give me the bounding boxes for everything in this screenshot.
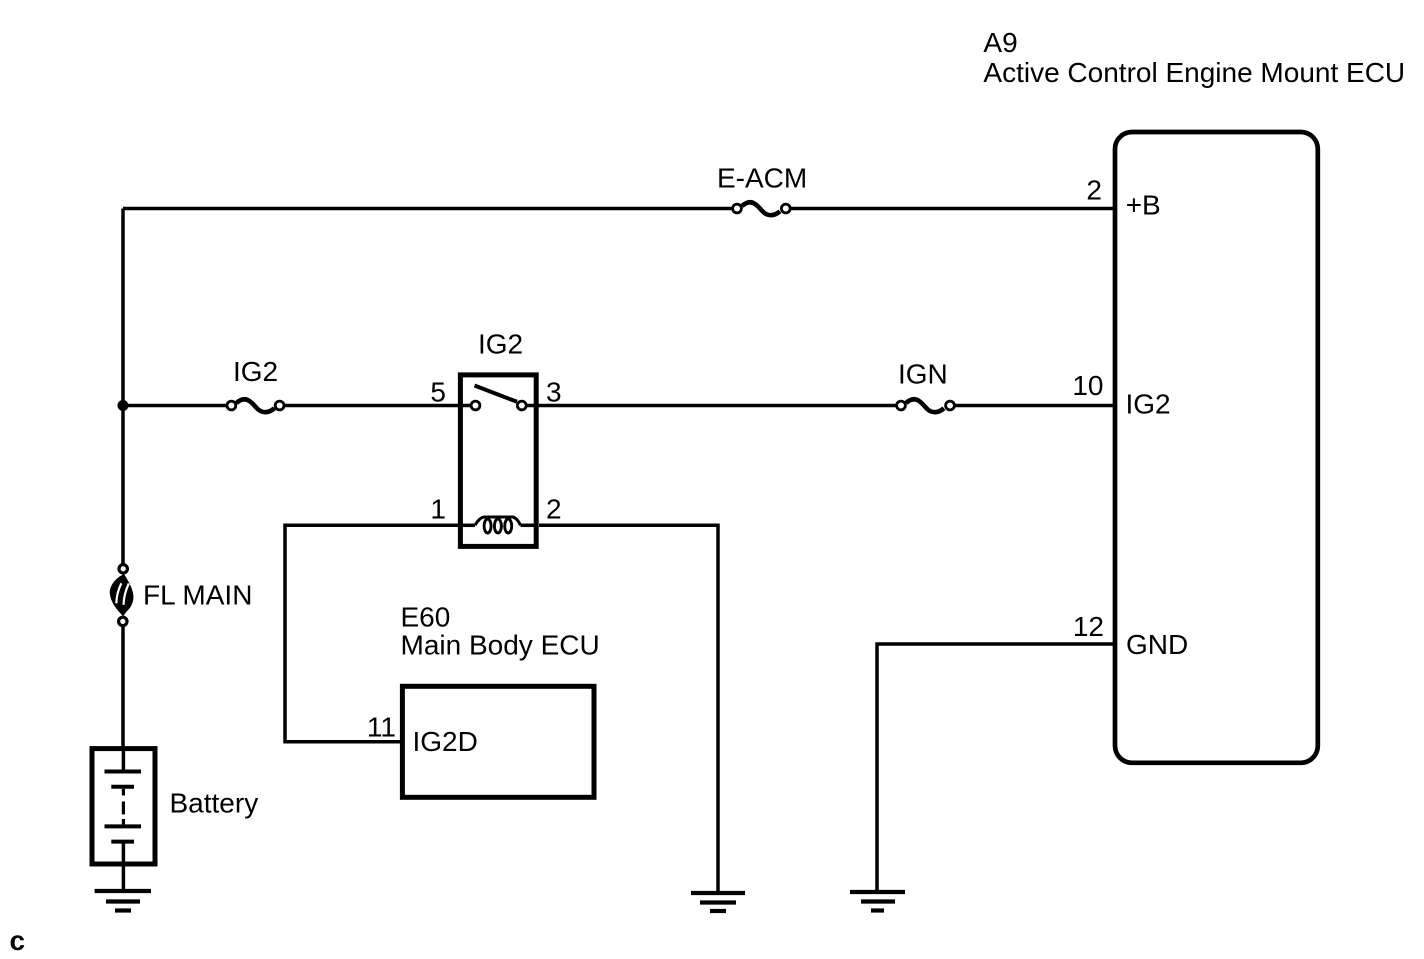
svg-text:Active Control Engine Mount EC: Active Control Engine Mount ECU [983,57,1405,88]
svg-text:3: 3 [546,377,562,408]
svg-text:IGN: IGN [898,358,948,389]
svg-text:5: 5 [430,377,446,408]
svg-text:1: 1 [430,494,446,525]
svg-text:12: 12 [1073,611,1104,642]
svg-text:c: c [10,925,26,956]
svg-text:2: 2 [546,494,562,525]
svg-text:10: 10 [1072,370,1103,401]
svg-text:IG2D: IG2D [413,726,478,757]
svg-text:2: 2 [1086,175,1102,206]
svg-text:E-ACM: E-ACM [717,162,807,193]
svg-text:+B: +B [1126,190,1161,221]
svg-text:IG2: IG2 [233,356,278,387]
svg-text:Main Body ECU: Main Body ECU [401,630,600,661]
svg-text:A9: A9 [983,27,1017,58]
svg-text:Battery: Battery [170,788,259,819]
svg-text:11: 11 [367,712,396,743]
svg-text:IG2: IG2 [1126,388,1171,419]
svg-text:GND: GND [1126,629,1188,660]
svg-text:FL MAIN: FL MAIN [143,580,252,611]
svg-text:E60: E60 [401,602,451,633]
svg-text:IG2: IG2 [478,328,523,359]
